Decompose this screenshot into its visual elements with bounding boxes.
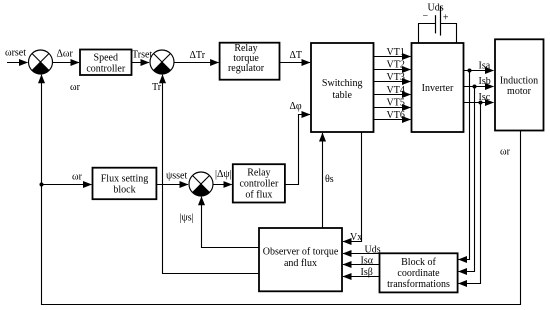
svg-text:VT6: VT6	[387, 110, 405, 121]
block Induction motor	[495, 39, 544, 130]
svg-text:VT3: VT3	[387, 72, 405, 83]
wire Speed controller to J2, label Trset	[132, 62, 149, 64]
wire Vx from Switching table to Observer	[343, 132, 362, 242]
svg-text:Isb: Isb	[479, 76, 491, 87]
block Block of coordinate transformations	[380, 253, 458, 292]
svg-text:controller: controller	[86, 64, 126, 75]
wire DC link bracket left	[419, 24, 436, 44]
svg-text:Flux setting: Flux setting	[101, 174, 149, 185]
wire Isa inverter to motor	[464, 70, 494, 72]
block Switching table	[311, 43, 374, 132]
svg-text:regulator: regulator	[228, 63, 265, 74]
wire Isb inverter to motor	[464, 86, 494, 88]
svg-text:block: block	[113, 185, 135, 196]
wire J2 to Relay torque regulator, label dTr	[174, 62, 219, 64]
svg-text:table: table	[332, 90, 352, 101]
wire Isc inverter to motor	[464, 102, 494, 104]
svg-text:ωr: ωr	[72, 172, 83, 183]
wire Is-beta into Observer	[343, 276, 380, 278]
block Flux setting block	[93, 168, 157, 200]
svg-text:Trset: Trset	[132, 50, 152, 61]
wire DC link bracket right	[441, 24, 457, 44]
wire VT4	[374, 94, 411, 96]
svg-text:Relay: Relay	[247, 168, 270, 179]
svg-text:transformations: transformations	[387, 279, 450, 290]
svg-text:|Δψ|: |Δψ|	[215, 169, 232, 180]
svg-text:ωr: ωr	[500, 147, 511, 158]
svg-text:Induction: Induction	[500, 76, 538, 87]
wire VT1	[374, 56, 411, 58]
wire Tr feedback Observer to J2	[163, 75, 260, 274]
svg-text:coordinate: coordinate	[397, 268, 440, 279]
block Speed controller	[80, 50, 132, 76]
wire VT3	[374, 81, 411, 83]
svg-text:Switching: Switching	[322, 78, 363, 89]
wire J1 to Speed controller, label dwr	[53, 62, 79, 64]
svg-text:Inverter: Inverter	[422, 83, 454, 94]
wire speed feedback: motor bottom, across bottom, up to J1	[42, 75, 521, 305]
wire VT5	[374, 107, 411, 109]
wire Isa tap down to Block	[459, 71, 470, 260]
summing junction J1	[29, 50, 53, 74]
svg-text:controller: controller	[239, 179, 279, 190]
block Observer of torque and flux	[259, 228, 342, 291]
svg-text:|ψs|: |ψs|	[180, 213, 194, 224]
svg-text:VT2: VT2	[387, 60, 405, 71]
svg-text:and flux: and flux	[284, 258, 317, 269]
wire Flux setting block to J3, label psset	[157, 184, 188, 186]
svg-text:Isa: Isa	[479, 61, 491, 72]
summing junction J2	[150, 50, 174, 74]
svg-text:of flux: of flux	[245, 190, 272, 201]
svg-text:Observer of torque: Observer of torque	[263, 247, 339, 258]
node junction dot Isa	[468, 69, 472, 73]
svg-text:Block of: Block of	[401, 257, 436, 268]
wire VT2	[374, 69, 411, 71]
wire Relay controller of flux output to Switching table (dphi)	[285, 115, 310, 185]
svg-text:+: +	[443, 13, 449, 24]
wire VT6	[374, 119, 411, 121]
svg-text:Vx: Vx	[350, 232, 362, 243]
node junction dot wr branch	[40, 183, 44, 187]
wire wr branch to Flux setting block	[42, 184, 92, 186]
capacitor DC link plates	[435, 15, 437, 33]
svg-text:Isβ: Isβ	[361, 267, 373, 278]
wire input wrset to J1	[7, 62, 28, 64]
svg-text:θs: θs	[325, 174, 334, 185]
summing junction J3	[189, 172, 213, 196]
svg-text:ΔTr: ΔTr	[190, 50, 206, 61]
wire psi-s feedback Observer to J3	[202, 197, 260, 248]
svg-text:Δωr: Δωr	[57, 49, 74, 60]
svg-text:Speed: Speed	[94, 53, 118, 64]
svg-text:Tr: Tr	[152, 82, 162, 93]
wire Is-alpha into Observer	[343, 264, 380, 266]
wire J3 to Relay controller of flux, label dpsi	[213, 184, 232, 186]
svg-text:Δφ: Δφ	[290, 101, 302, 112]
svg-text:VT5: VT5	[387, 98, 405, 109]
block Relay torque regulator	[220, 43, 280, 80]
svg-text:−: −	[423, 11, 429, 22]
wire Uds into Observer	[343, 253, 380, 255]
svg-text:VT1: VT1	[387, 47, 405, 58]
svg-text:ΔT: ΔT	[290, 50, 303, 61]
svg-text:motor: motor	[507, 86, 532, 97]
wire Relay torque regulator to Switching table, label dT	[280, 62, 311, 64]
svg-text:Uds: Uds	[428, 3, 444, 14]
svg-text:ωr: ωr	[70, 82, 81, 93]
block Relay controller of flux	[233, 164, 285, 202]
node junction dot Isc	[479, 101, 483, 105]
wire Isb tap down to Block	[459, 87, 475, 272]
svg-text:VT4: VT4	[387, 85, 405, 96]
svg-text:Uds: Uds	[365, 245, 381, 256]
wire theta-s from Observer to Switching table	[322, 133, 324, 228]
block Inverter	[412, 43, 464, 132]
svg-text:Isα: Isα	[361, 256, 374, 267]
svg-text:ψsset: ψsset	[166, 171, 187, 182]
node junction dot Isb	[473, 85, 477, 89]
wire Isc tap down to Block	[459, 103, 481, 284]
svg-text:ωrset: ωrset	[5, 48, 26, 59]
